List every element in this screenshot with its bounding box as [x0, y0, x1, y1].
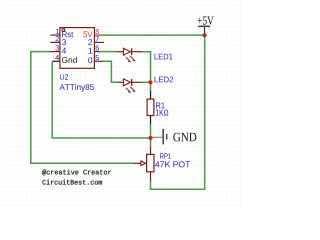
pin number 6: [96, 45, 99, 50]
pin 4 stub: [52, 60, 60, 62]
designator U2: [60, 74, 68, 79]
wire pin5 to LED2: [103, 61, 119, 82]
pin 8 stub: [94, 34, 102, 36]
pin 1 stub: [50, 34, 60, 36]
net label GND: [173, 133, 196, 142]
pin name 0: [88, 57, 92, 63]
wire R1 bottom to node B: [150, 124, 152, 138]
pin name Gnd: [62, 57, 77, 63]
node B junction dot: [148, 136, 152, 140]
wire pin3 to RP1 wiper: [31, 52, 134, 164]
value label LED2: [155, 77, 174, 83]
pin name 5V: [83, 31, 92, 37]
wire RP1 bottom to bottom rail: [150, 180, 152, 189]
designator RP1: [160, 153, 171, 158]
pin name Rst: [62, 31, 73, 37]
pin name 2: [88, 39, 92, 45]
pin 3 stub: [50, 51, 60, 53]
wire node A to R1 top: [150, 82, 152, 92]
node +5V junction dot: [203, 33, 207, 37]
pin name 1: [89, 48, 93, 54]
wire LED2 cathode to node A: [141, 81, 151, 83]
wire +5V rail down right side: [204, 35, 206, 189]
wire pin8 to +5V: [102, 34, 205, 36]
power +5V symbol: [198, 26, 210, 33]
wire node B to RP1 top: [150, 138, 152, 148]
resistor R1: [147, 91, 154, 124]
designator R1: [156, 102, 165, 108]
wire pin6 to LED1: [99, 51, 119, 53]
net label +5V: [198, 17, 214, 25]
pin number 7: [96, 36, 99, 41]
pin number 5: [95, 55, 98, 60]
pin number 4: [55, 55, 59, 60]
annotation CircuitBest.com: [42, 179, 101, 184]
pin number 2: [56, 36, 59, 41]
value label LED1: [155, 54, 173, 60]
pin 2 stub: [50, 41, 60, 43]
pin name 3: [62, 39, 66, 45]
pin name 4: [62, 48, 66, 54]
potentiometer RP1: [134, 147, 155, 181]
diode LED2: [118, 79, 142, 93]
wire pin4 Gnd left and down to node B: [52, 62, 149, 138]
ground GND power port: [153, 129, 167, 145]
IC U2 ATTiny85 body: [60, 28, 95, 69]
pin number 8: [96, 29, 99, 34]
pin 5 stub: [94, 60, 103, 62]
annotation @creative Creator: [42, 169, 111, 175]
wire bottom horizontal: [150, 188, 206, 190]
wire LED1 cathode to node A: [142, 52, 151, 83]
value label 47K POT: [155, 161, 190, 167]
pin 6 stub: [94, 51, 99, 53]
pin 7 stub: [94, 41, 104, 43]
diode LED1: [118, 48, 142, 62]
pin number 1: [56, 29, 59, 34]
node A junction dot: [148, 80, 152, 84]
value label 1KΩ: [156, 110, 168, 116]
value label ATTiny85: [59, 84, 93, 92]
pin number 3: [55, 45, 58, 50]
